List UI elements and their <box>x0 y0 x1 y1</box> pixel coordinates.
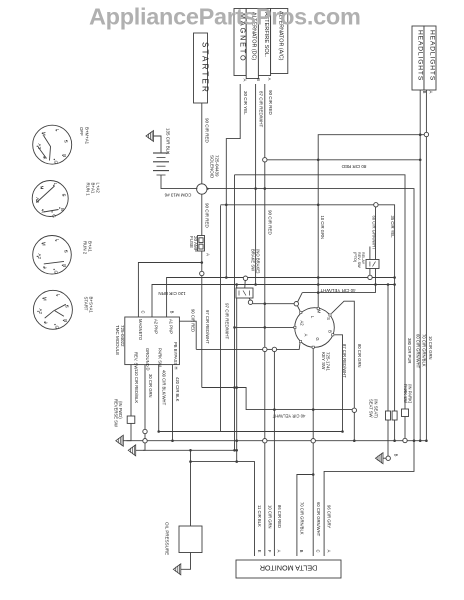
ground G3 <box>376 453 384 464</box>
wire x234 drop <box>234 175 236 451</box>
wire A1 pin to TMC ground run <box>277 343 300 350</box>
svg-text:RELAY: RELAY <box>361 252 365 265</box>
svg-text:725-1741: 725-1741 <box>326 352 331 372</box>
TMC right stub <box>179 321 196 349</box>
wire alternator DC 87 CIR RED/WHT <box>255 84 257 285</box>
wire afterfire sol 90 CIR RED <box>264 84 266 158</box>
svg-text:110 CIR RED/BLK: 110 CIR RED/BLK <box>134 369 139 403</box>
svg-text:A: A <box>277 550 282 553</box>
wire ground run to TMC stub <box>196 348 262 350</box>
ignition key switch S1 connector <box>295 308 335 348</box>
label RUN 2 B+A1 <box>83 241 93 255</box>
ignition switch position START <box>33 290 72 329</box>
wire headlight A below connector <box>425 137 427 441</box>
wire 80 CIR RED run <box>318 135 424 308</box>
svg-text:A: A <box>327 550 332 553</box>
magneto box <box>234 9 248 76</box>
wire TMC A1 up-over bus y277 <box>167 278 395 318</box>
svg-text:RUN 1: RUN 1 <box>86 183 91 197</box>
svg-text:380 CIR PUR: 380 CIR PUR <box>407 338 412 363</box>
svg-text:90 CIR RED: 90 CIR RED <box>268 90 273 116</box>
svg-text:BRAKE SW: BRAKE SW <box>251 249 256 271</box>
ignition switch position RUN 2 <box>33 236 72 275</box>
wire below lever connector <box>353 413 355 441</box>
wire y205 continues to seat feed corner <box>378 205 395 411</box>
svg-text:B+S+A1: B+S+A1 <box>89 297 94 314</box>
wire PTO run to lever connector <box>202 388 352 410</box>
wire x201 below connector <box>201 276 203 388</box>
seat switch SW2 box <box>392 411 397 420</box>
svg-text:C: C <box>141 310 146 313</box>
svg-text:135 CIR BLK: 135 CIR BLK <box>166 128 171 154</box>
svg-text:DELTA MONITOR: DELTA MONITOR <box>260 564 318 573</box>
svg-text:86 CIR RED: 86 CIR RED <box>277 505 282 528</box>
svg-text:B+A1: B+A1 <box>91 183 96 194</box>
svg-text:F: F <box>267 550 272 553</box>
svg-text:FUSE: FUSE <box>189 236 194 248</box>
wire node to relay K1 <box>244 280 246 288</box>
svg-text:(NO BRAKE): (NO BRAKE) <box>255 249 260 274</box>
svg-text:S: S <box>62 193 67 196</box>
svg-text:A: A <box>267 78 272 81</box>
wire y160 run to headlight B <box>265 159 420 161</box>
alternator (DC) box <box>246 9 258 79</box>
wire TMC to bus 431 (100 CIR BLK/WHT) <box>159 365 343 432</box>
svg-text:10 CIR GRN: 10 CIR GRN <box>267 505 272 529</box>
svg-text:70 CIR GRN/BLK: 70 CIR GRN/BLK <box>299 502 304 535</box>
svg-text:35 CIR YEL: 35 CIR YEL <box>390 216 395 239</box>
svg-text:A: A <box>43 266 48 269</box>
svg-text:REV. SW: REV. SW <box>134 352 139 369</box>
svg-text:A: A <box>205 253 210 256</box>
svg-text:A: A <box>304 334 309 337</box>
svg-text:START: START <box>84 297 89 311</box>
wire G pin down 60 CIR GRN/WHT <box>312 349 314 439</box>
svg-text:MAGNETO: MAGNETO <box>138 319 143 341</box>
wire node to ground G3 <box>383 457 386 459</box>
park switch box <box>402 409 409 417</box>
label START B+S+A1 <box>84 297 94 314</box>
svg-text:A: A <box>428 91 433 94</box>
svg-text:HEADLIGHTS: HEADLIGHTS <box>428 30 435 81</box>
svg-text:REV. SW: REV. SW <box>357 252 361 268</box>
svg-text:B: B <box>256 78 261 81</box>
wire oil pressure to ground <box>181 553 191 570</box>
svg-text:M: M <box>40 186 45 190</box>
svg-text:40 CIR YEL/WHT: 40 CIR YEL/WHT <box>320 288 355 293</box>
svg-text:G: G <box>54 326 59 330</box>
wire solenoid to fuse <box>201 194 203 235</box>
svg-text:40 CIR YEL/WHT: 40 CIR YEL/WHT <box>272 414 305 419</box>
headlights box <box>412 26 436 90</box>
wire monitor pin B branch from key ground wire <box>297 475 313 557</box>
wire headlight B down right side <box>419 90 421 441</box>
svg-text:400 CIR BLK/WHT: 400 CIR BLK/WHT <box>161 370 166 406</box>
svg-text:30 CIR YEL: 30 CIR YEL <box>243 91 248 115</box>
wire A2 pin to feed <box>235 326 294 328</box>
wire fuse out to TMC <box>138 251 201 317</box>
svg-text:G: G <box>54 160 59 164</box>
wire magneto 30 CIR YEL <box>226 84 240 278</box>
svg-text:RUN 2: RUN 2 <box>83 241 88 255</box>
svg-text:SEAT SW: SEAT SW <box>369 399 374 418</box>
svg-text:90 CIR RED: 90 CIR RED <box>205 203 210 229</box>
svg-text:PB BYPASS: PB BYPASS <box>173 342 178 365</box>
relay K2 box <box>366 260 379 269</box>
wire solenoid output run y188 <box>207 189 415 441</box>
wire left drop x220 <box>220 205 222 431</box>
svg-text:KEY SW: KEY SW <box>321 352 326 370</box>
wire relay K1 to node <box>249 298 250 300</box>
svg-text:B: B <box>60 208 65 211</box>
svg-text:G: G <box>315 337 320 340</box>
wire relay K2 to node <box>369 269 371 276</box>
wire reverse switch to ground <box>124 423 132 440</box>
svg-text:60 CIR GRN/WHT: 60 CIR GRN/WHT <box>415 334 420 369</box>
wire ground run to TMC <box>267 348 272 350</box>
svg-text:A2: A2 <box>300 320 305 326</box>
key switch pin stubs <box>294 307 334 348</box>
ground (battery negative) <box>146 131 161 154</box>
svg-text:REVERSE SW: REVERSE SW <box>114 399 119 427</box>
wire wrap bus to monitor pin A2 <box>324 441 414 556</box>
svg-text:(PTO): (PTO) <box>353 252 357 263</box>
oil pressure switch box <box>179 526 202 553</box>
svg-text:GROUND: GROUND <box>145 348 150 367</box>
ignition switch position OFF <box>33 125 72 164</box>
wire key switch fan bus <box>253 303 294 305</box>
connector nodes layer <box>143 132 429 460</box>
label OFF B+M+A1 <box>79 127 89 145</box>
wire y175 run <box>235 175 406 409</box>
wire 86 CIR RED drop to monitor <box>273 352 275 556</box>
solenoid stud node <box>197 184 210 194</box>
svg-text:COM M13 #6: COM M13 #6 <box>164 193 191 198</box>
bus wire y441 <box>127 440 428 442</box>
svg-text:TMC MODULE: TMC MODULE <box>115 325 120 355</box>
wire B pin right and down <box>334 335 342 432</box>
svg-text:(IN PARK): (IN PARK) <box>408 384 413 404</box>
svg-text:B+M+A1: B+M+A1 <box>84 127 89 145</box>
svg-text:G: G <box>52 214 57 218</box>
label FUSE 20 AMP <box>189 236 198 252</box>
wire fan to L pin <box>297 306 300 312</box>
wire TMC H to bus 441 <box>172 365 174 441</box>
svg-text:PARK SW: PARK SW <box>403 384 408 403</box>
wire relay K2 right pin stub <box>375 269 377 293</box>
svg-text:60 CIR GRN/WHT: 60 CIR GRN/WHT <box>316 502 321 537</box>
svg-text:(IN SEAT): (IN SEAT) <box>373 399 378 418</box>
svg-text:80 CIR GRN: 80 CIR GRN <box>357 344 362 368</box>
wire afterfire connector down to monitor pin H <box>264 162 266 347</box>
ground G4 <box>173 564 181 575</box>
svg-text:HEADLIGHTS: HEADLIGHTS <box>416 30 423 81</box>
svg-text:30 CIR GRN: 30 CIR GRN <box>148 374 153 398</box>
label KEY SW 725-1741 <box>321 352 331 372</box>
svg-text:97 CIR RED/WHT: 97 CIR RED/WHT <box>205 310 210 344</box>
ground G2 <box>128 445 136 456</box>
wire to ground G2 <box>143 448 145 450</box>
wire fan up to 40 CIR YEL/WHT <box>297 293 302 303</box>
TMC module box U1 <box>125 317 180 365</box>
svg-text:OIL PRESSURE: OIL PRESSURE <box>165 522 170 555</box>
fuse F1 20A <box>198 236 205 252</box>
svg-text:PARK SW: PARK SW <box>158 348 163 367</box>
svg-text:11 CIR BLK: 11 CIR BLK <box>257 505 262 527</box>
ground G1 <box>116 435 124 446</box>
svg-text:SOLENOID: SOLENOID <box>210 155 215 179</box>
svg-text:A: A <box>243 79 248 82</box>
svg-text:STARTER: STARTER <box>201 42 210 94</box>
wire TMC D down <box>144 365 146 448</box>
wire starter to solenoid stud <box>201 103 203 184</box>
svg-text:AppliancePartsPros.com: AppliancePartsPros.com <box>89 4 361 30</box>
wire battery to solenoid stud <box>161 175 197 189</box>
svg-text:A1 PNP: A1 PNP <box>169 319 174 334</box>
delta monitor box <box>236 560 341 578</box>
svg-text:A2 PNP: A2 PNP <box>154 319 159 334</box>
label SOLENOID 725-04439 <box>210 155 220 179</box>
svg-text:80 CIR RED: 80 CIR RED <box>341 164 367 169</box>
bus 100 CIR BLK/WHT end dot <box>157 430 160 433</box>
label PTO REV SW RELAY <box>353 252 365 268</box>
svg-text:C: C <box>316 549 321 552</box>
wire 40 CIR YEL/WHT run <box>302 292 375 294</box>
svg-text:B: B <box>328 330 333 333</box>
label BRAKE SW (NO BRAKE) <box>251 249 261 274</box>
svg-text:20 AMP: 20 AMP <box>193 236 198 252</box>
svg-text:10 CIR GRN: 10 CIR GRN <box>320 216 325 240</box>
svg-text:725-04022: 725-04022 <box>120 325 125 347</box>
wire seat switch 1 feed <box>387 285 389 412</box>
wire TMC A2 up-over <box>152 285 395 318</box>
svg-text:97 CIR RED/WHT: 97 CIR RED/WHT <box>225 303 230 340</box>
svg-text:E: E <box>257 550 262 553</box>
wire headlight A down right side <box>425 90 427 132</box>
svg-text:H: H <box>174 366 179 369</box>
svg-text:B: B <box>170 311 175 314</box>
svg-text:(IN FWD): (IN FWD) <box>118 401 123 419</box>
battery B1 <box>153 153 169 175</box>
alternator (A/C) box <box>271 9 288 74</box>
label PARK SW (IN PARK) <box>403 384 413 404</box>
svg-text:87 CIR RED/WHT: 87 CIR RED/WHT <box>258 91 263 128</box>
svg-text:725-04439: 725-04439 <box>214 155 219 177</box>
svg-text:90 CIR RED: 90 CIR RED <box>191 309 196 332</box>
svg-text:90 CIR RED: 90 CIR RED <box>205 118 210 144</box>
seat switch SW1 box <box>386 411 391 420</box>
svg-text:S: S <box>326 317 331 320</box>
wire TMC to reverse switch 110 CIR RED/BLK <box>130 365 132 416</box>
wire S pin to 80 CIR GRN drop <box>331 301 354 408</box>
svg-text:70 CIR GRN/BLK: 70 CIR GRN/BLK <box>422 334 427 367</box>
svg-text:96 CIR GRY: 96 CIR GRY <box>327 505 332 528</box>
wire seat switch 1 to ground node <box>387 420 389 456</box>
relay K2 pin stubs up <box>369 247 371 260</box>
svg-text:D: D <box>146 367 151 370</box>
label SEAT SW (IN SEAT) <box>369 399 379 418</box>
wire key ground below connector <box>312 443 314 556</box>
label RUN 1 B+A1 L+A2 <box>86 183 101 197</box>
svg-text:L+A2: L+A2 <box>96 183 101 194</box>
wire x201 lower drop <box>201 263 203 272</box>
bus wire y450 <box>136 449 237 451</box>
label TMC MODULE 725-04022 <box>115 325 125 355</box>
relay K1 box <box>236 288 253 298</box>
afterfire solenoid box <box>258 9 270 76</box>
wire y205 run <box>221 204 374 206</box>
svg-text:B: B <box>394 454 399 457</box>
svg-text:120 CIR BRN: 120 CIR BRN <box>158 291 185 296</box>
wire seat switch 2 to bus <box>394 420 396 441</box>
svg-text:90 CIR RED: 90 CIR RED <box>268 210 273 236</box>
svg-text:B: B <box>299 550 304 553</box>
svg-text:420 CIR BLK: 420 CIR BLK <box>175 377 180 402</box>
label REVERSE SW (IN FWD) <box>114 399 124 427</box>
svg-text:10 CIR GRN: 10 CIR GRN <box>428 336 433 360</box>
svg-text:G: G <box>54 271 59 275</box>
svg-text:B+A1: B+A1 <box>88 241 93 252</box>
ignition switch position RUN 1 <box>32 181 68 219</box>
wire x236 drop <box>236 285 238 462</box>
reverse switch box <box>127 416 135 423</box>
oil pressure switch feed <box>190 450 192 526</box>
svg-text:M: M <box>317 310 322 314</box>
wire monitor pin E from oil pressure feed <box>191 462 255 556</box>
seat switch 2 feed crossing dots <box>393 276 396 279</box>
wire park switch to bus <box>404 417 406 439</box>
svg-text:87 CIR RED/WHT: 87 CIR RED/WHT <box>342 344 347 378</box>
starter motor box <box>194 33 210 103</box>
